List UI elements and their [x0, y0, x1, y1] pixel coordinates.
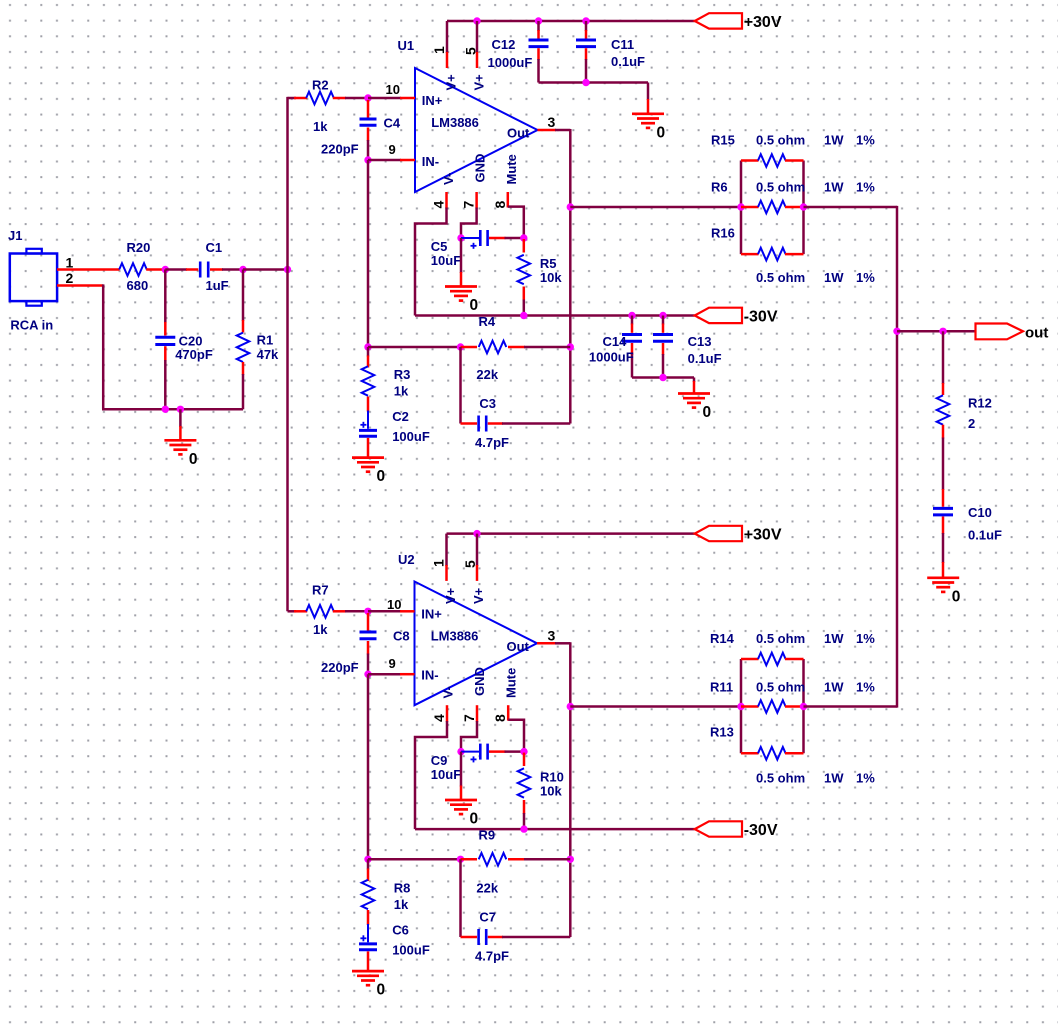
svg-text:C13: C13: [688, 334, 712, 349]
svg-text:10: 10: [386, 82, 400, 97]
svg-text:1k: 1k: [394, 384, 409, 399]
svg-text:Mute: Mute: [504, 668, 519, 698]
svg-text:Out: Out: [507, 126, 530, 141]
svg-text:7: 7: [460, 201, 476, 209]
wire to ground (C12/C11): [647, 83, 650, 101]
svg-text:5: 5: [463, 47, 479, 55]
resistor R6 0.5 ohm: [741, 206, 759, 209]
svg-text:3: 3: [548, 628, 556, 644]
svg-text:0: 0: [952, 588, 961, 605]
capacitor C6 100uF: [367, 924, 369, 942]
svg-text:LM3886: LM3886: [431, 629, 479, 644]
svg-text:47k: 47k: [257, 347, 279, 362]
junction R10/-30V rail: [520, 825, 527, 832]
op-amp U1 LM3886 triangle: [415, 68, 538, 192]
svg-text:4.7pF: 4.7pF: [475, 949, 509, 964]
svg-text:1W: 1W: [824, 180, 844, 195]
svg-text:22k: 22k: [476, 367, 498, 382]
svg-text:1W: 1W: [824, 680, 844, 695]
svg-text:GND: GND: [472, 667, 487, 696]
svg-text:R12: R12: [968, 396, 992, 411]
capacitor C3 4.7pF: [461, 422, 478, 425]
wire R bank left bracket (U1): [740, 161, 743, 255]
svg-text:out: out: [1025, 325, 1048, 342]
U1 pin 5 (V+) wire: [476, 21, 479, 53]
node +30V rail (U1): [447, 20, 695, 23]
svg-text:1: 1: [431, 46, 447, 54]
U2 pin 10 IN+ wire: [368, 610, 401, 613]
svg-text:R8: R8: [394, 881, 411, 896]
junction R6 right: [800, 203, 807, 210]
svg-text:IN-: IN-: [422, 154, 439, 169]
svg-text:9: 9: [389, 656, 396, 671]
capacitor C12 top lead: [535, 17, 542, 24]
U2 pin 8 (Mute) wire: [507, 705, 510, 720]
junction R11 right: [800, 703, 807, 710]
junction U1 pin5/rail: [473, 17, 480, 24]
ground (C12/C11): [632, 112, 664, 115]
svg-text:V+: V+: [471, 587, 486, 604]
svg-text:-30V: -30V: [744, 822, 778, 839]
wire to ground (C14/C13): [693, 378, 696, 383]
junction C1/R1: [239, 266, 246, 273]
svg-text:V-: V-: [441, 173, 456, 185]
svg-text:7: 7: [461, 714, 477, 722]
U1 output pin 3 wire: [538, 129, 557, 132]
svg-text:R15: R15: [711, 133, 735, 148]
svg-text:C14: C14: [603, 334, 628, 349]
svg-text:100uF: 100uF: [392, 429, 430, 444]
svg-text:R9: R9: [479, 828, 496, 843]
svg-text:1%: 1%: [856, 133, 875, 148]
resistor R9 22k: [461, 858, 478, 861]
svg-text:+30V: +30V: [744, 526, 782, 543]
svg-text:10k: 10k: [540, 270, 562, 285]
node -30V rail (U1): [415, 314, 695, 317]
svg-text:4.7pF: 4.7pF: [475, 435, 509, 450]
U1 pin 9 IN- wire: [368, 159, 401, 162]
junction C14 top: [628, 312, 635, 319]
svg-text:100uF: 100uF: [392, 943, 430, 958]
U2 output pin 3 wire: [537, 642, 556, 645]
junction R5/-30V rail: [520, 312, 527, 319]
wire IN- node vertical: [367, 160, 370, 347]
capacitor C4 220pF: [367, 100, 370, 118]
capacitor C20 470pF: [164, 270, 167, 324]
svg-text:1W: 1W: [824, 631, 844, 646]
svg-text:9: 9: [389, 142, 396, 157]
svg-text:8: 8: [492, 201, 508, 209]
resistor R16 0.5 ohm: [741, 253, 759, 256]
svg-text:1: 1: [431, 559, 447, 567]
svg-text:0.5 ohm: 0.5 ohm: [756, 133, 805, 148]
wire -30V decoupling ground rail: [632, 376, 694, 379]
svg-text:R13: R13: [710, 725, 734, 740]
junction feedback node R9: [364, 856, 371, 863]
junction U2 pin5/rail: [473, 530, 480, 537]
ground (input): [164, 439, 196, 442]
J1 pin 2 wire: [57, 284, 103, 287]
svg-text:1%: 1%: [856, 631, 875, 646]
U1 pin 10 IN+ wire: [368, 97, 401, 100]
svg-text:5: 5: [462, 560, 478, 568]
resistor R1 47k: [242, 270, 245, 322]
wire out node to R12: [942, 331, 945, 384]
wire bank to main bus (U2): [804, 705, 898, 708]
svg-text:R14: R14: [710, 631, 735, 646]
capacitor C11 bottom lead: [585, 48, 588, 60]
capacitor C14 1000uF: [631, 316, 634, 325]
svg-text:1uF: 1uF: [206, 278, 229, 293]
junction bus/out tap: [893, 328, 900, 335]
junction R11 left: [737, 703, 744, 710]
svg-text:0.5 ohm: 0.5 ohm: [756, 680, 805, 695]
svg-text:R16: R16: [711, 226, 735, 241]
wire C3 branch left: [459, 347, 462, 424]
power connector -30V (U2): [695, 821, 742, 836]
svg-text:2: 2: [66, 270, 74, 286]
connector out: [976, 324, 1024, 340]
junction C20/ground rail: [162, 406, 169, 413]
junction C9/R10/pin8: [520, 748, 527, 755]
svg-text:R2: R2: [312, 78, 329, 93]
resistor R10 10k: [523, 753, 526, 766]
junction C5/R5/pin8: [520, 234, 527, 241]
svg-text:0.5 ohm: 0.5 ohm: [756, 631, 805, 646]
svg-text:C10: C10: [968, 505, 992, 520]
svg-text:R10: R10: [540, 770, 564, 785]
U2 pin 9 IN- wire: [368, 673, 401, 676]
svg-text:-30V: -30V: [744, 308, 778, 325]
U2 pin 5 (V+) wire: [476, 534, 479, 566]
capacitor C13 0.1uF: [662, 316, 665, 325]
svg-text:2: 2: [968, 416, 975, 431]
svg-text:C12: C12: [492, 37, 516, 52]
svg-text:4: 4: [431, 201, 447, 209]
resistor R7 1k: [306, 605, 334, 618]
svg-text:R3: R3: [394, 367, 411, 382]
junction output/row (U2): [567, 703, 574, 710]
svg-text:U2: U2: [398, 552, 415, 567]
svg-text:0: 0: [657, 124, 666, 141]
svg-text:Mute: Mute: [504, 154, 519, 184]
junction ground tap: [177, 406, 184, 413]
capacitor C2 100uF: [367, 411, 369, 429]
svg-text:680: 680: [127, 278, 149, 293]
power connector +30V (U2): [695, 526, 742, 541]
ground (C10): [927, 576, 959, 579]
wire main output bus vertical: [896, 206, 899, 708]
svg-text:C2: C2: [392, 409, 409, 424]
svg-text:C1: C1: [206, 240, 223, 255]
junction C5 left: [457, 234, 464, 241]
svg-text:1%: 1%: [856, 180, 875, 195]
junction C13 top: [659, 312, 666, 319]
junction input node/vertical: [284, 266, 291, 273]
svg-text:1: 1: [66, 255, 74, 271]
ground (mute C9): [445, 799, 477, 802]
svg-text:0: 0: [189, 451, 198, 468]
wire R bank right bracket (U2): [802, 659, 805, 753]
connector J1 RCA: [10, 254, 57, 302]
node -30V rail (U2): [415, 828, 695, 831]
junction R9/C7 left: [457, 856, 464, 863]
wire to mute ground (U2): [460, 752, 463, 787]
wire to input ground: [179, 409, 182, 427]
junction output/row: [567, 203, 574, 210]
svg-text:R7: R7: [312, 583, 329, 598]
svg-text:0: 0: [470, 811, 479, 828]
svg-text:0.1uF: 0.1uF: [611, 54, 645, 69]
wire to mute ground: [460, 238, 463, 273]
capacitor C10 0.1uF: [942, 489, 945, 507]
svg-text:0: 0: [470, 297, 479, 314]
svg-text:1k: 1k: [313, 622, 328, 637]
svg-text:R6: R6: [711, 180, 728, 195]
svg-text:1W: 1W: [824, 771, 844, 786]
junction C8/pin9: [364, 671, 371, 678]
power connector -30V (U1): [695, 308, 742, 323]
capacitor C8 220pF: [367, 613, 370, 631]
junction C11/ground rail: [582, 79, 589, 86]
svg-text:+30V: +30V: [744, 14, 782, 31]
U1 pin 7 (GND) wire: [475, 192, 478, 209]
svg-text:C3: C3: [479, 396, 496, 411]
svg-text:0: 0: [703, 404, 712, 421]
wire R bank right bracket (U1): [802, 161, 805, 255]
svg-text:0.5 ohm: 0.5 ohm: [756, 270, 805, 285]
svg-text:U1: U1: [398, 38, 415, 53]
resistor R8 1k: [367, 859, 370, 869]
wire output row to R bank: [570, 206, 741, 209]
svg-text:1000uF: 1000uF: [488, 55, 533, 70]
resistor R3 1k: [367, 347, 370, 357]
svg-text:R4: R4: [479, 314, 496, 329]
resistor R20 680: [119, 263, 147, 276]
svg-text:C8: C8: [393, 629, 410, 644]
wire bank to main bus (U1): [804, 206, 898, 209]
svg-text:R11: R11: [710, 680, 733, 695]
capacitor C12 bottom lead: [537, 48, 540, 60]
svg-text:C11: C11: [611, 37, 634, 52]
svg-text:GND: GND: [473, 154, 488, 183]
resistor R5 10k: [523, 239, 526, 253]
op-amp U2 LM3886 triangle: [415, 582, 538, 706]
U2 pin 4 (V-) wire: [446, 705, 449, 722]
junction R12 top: [939, 328, 946, 335]
ground (C6): [352, 970, 384, 973]
svg-text:C4: C4: [384, 116, 401, 131]
junction C9 left: [457, 748, 464, 755]
capacitor C11 top lead: [582, 17, 589, 24]
wire output row to R bank (U2): [570, 705, 741, 708]
svg-text:1%: 1%: [856, 771, 875, 786]
wire R2 to junction: [333, 97, 346, 100]
wire feedback row: [368, 346, 461, 349]
svg-text:0.1uF: 0.1uF: [688, 351, 722, 366]
svg-text:1000uF: 1000uF: [589, 350, 634, 365]
capacitor C9 10uF: [461, 751, 479, 753]
svg-text:C5: C5: [431, 239, 448, 254]
junction R20/C1/C20: [162, 266, 169, 273]
svg-text:V-: V-: [441, 686, 456, 698]
svg-text:4: 4: [431, 714, 447, 722]
node +30V rail (U2): [447, 532, 695, 535]
wire decoupling ground rail (U1): [539, 81, 649, 84]
U2 pin 1 (V+) wire: [445, 534, 448, 566]
U1 pin 1 (V+) wire: [446, 21, 449, 53]
svg-text:0.5 ohm: 0.5 ohm: [756, 771, 805, 786]
svg-text:1k: 1k: [394, 897, 409, 912]
wire J1 pin2 down to ground rail: [102, 284, 105, 409]
U1 pin 4 (V-) wire: [445, 192, 448, 209]
svg-text:IN+: IN+: [422, 93, 443, 108]
svg-text:R20: R20: [127, 240, 151, 255]
svg-text:LM3886: LM3886: [431, 115, 479, 130]
ground (C14/C13): [678, 392, 710, 395]
junction R6 left: [737, 203, 744, 210]
svg-text:R1: R1: [257, 333, 274, 348]
capacitor C5 10uF: [461, 237, 479, 239]
svg-text:C7: C7: [479, 910, 496, 925]
svg-text:3: 3: [548, 114, 556, 130]
svg-text:V+: V+: [472, 74, 487, 91]
svg-text:220pF: 220pF: [321, 142, 359, 157]
wire splitter vertical (R2 to R7): [286, 97, 289, 611]
junction R7/C8/pin10: [364, 608, 371, 615]
wire input node to splitter: [243, 268, 288, 271]
resistor R12 2: [937, 395, 950, 424]
svg-text:1W: 1W: [824, 270, 844, 285]
resistor R11 0.5 ohm: [741, 705, 759, 708]
svg-text:22k: 22k: [476, 881, 498, 896]
U1 pin 8 (Mute) wire: [507, 192, 510, 208]
resistor R13 0.5 ohm: [741, 752, 759, 755]
junction C4/pin9: [364, 156, 371, 163]
wire R7 to junction: [333, 610, 346, 613]
svg-text:IN+: IN+: [421, 607, 442, 622]
svg-text:0: 0: [377, 982, 386, 999]
svg-text:1%: 1%: [856, 680, 875, 695]
wire R20 to C1: [146, 268, 165, 271]
wire C7 branch left: [459, 859, 462, 937]
power connector +30V (top): [695, 13, 742, 28]
capacitor C1 1uF: [199, 262, 202, 278]
junction R2/C4/pin10: [364, 94, 371, 101]
svg-text:220pF: 220pF: [321, 660, 359, 675]
svg-text:V+: V+: [443, 587, 458, 604]
resistor R2 1k: [306, 92, 334, 105]
J1 pin 1 wire: [57, 268, 120, 271]
svg-text:0.5 ohm: 0.5 ohm: [756, 180, 805, 195]
svg-text:8: 8: [492, 714, 508, 722]
svg-text:10k: 10k: [540, 784, 562, 799]
U2 pin 7 (GND) wire: [476, 705, 479, 722]
wire R bank left bracket (U2): [740, 659, 743, 753]
wire U2 output vertical: [569, 642, 572, 937]
resistor R4 22k: [461, 346, 478, 349]
svg-text:IN-: IN-: [421, 668, 438, 683]
svg-text:0: 0: [377, 468, 386, 485]
svg-text:R5: R5: [540, 256, 557, 271]
svg-text:V+: V+: [444, 74, 459, 91]
wire IN- node vertical (U2): [367, 674, 370, 859]
ground (mute C5): [445, 285, 477, 288]
capacitor C11 0.1uF: [576, 39, 596, 42]
wire R7 input row: [288, 610, 297, 613]
junction output/feedback: [567, 343, 574, 350]
capacitor C7 4.7pF: [461, 936, 478, 939]
wire U1 output vertical: [569, 129, 572, 424]
junction output/feedback (U2): [567, 856, 574, 863]
svg-text:1k: 1k: [313, 119, 328, 134]
wire R2 input row: [288, 97, 297, 100]
svg-text:10uF: 10uF: [431, 767, 461, 782]
resistor R15 0.5 ohm: [741, 159, 759, 162]
svg-text:1%: 1%: [856, 270, 875, 285]
ground (C2): [352, 456, 384, 459]
wire feedback row (U2): [368, 858, 461, 861]
svg-text:J1: J1: [8, 228, 22, 243]
wire C1 to R1 node: [210, 268, 223, 271]
svg-text:Out: Out: [507, 639, 530, 654]
junction feedback node R4: [364, 343, 371, 350]
svg-text:0.1uF: 0.1uF: [968, 528, 1002, 543]
svg-text:C6: C6: [392, 923, 409, 938]
svg-text:10: 10: [387, 597, 401, 612]
svg-text:C9: C9: [431, 753, 448, 768]
junction R4/C3 left: [457, 343, 464, 350]
capacitor C12 1000uF: [529, 39, 549, 42]
svg-text:1W: 1W: [824, 133, 844, 148]
svg-text:470pF: 470pF: [175, 347, 213, 362]
wire to out connector: [897, 330, 975, 333]
svg-text:RCA in: RCA in: [10, 318, 53, 333]
resistor R14 0.5 ohm: [741, 658, 759, 661]
junction C13/ground rail: [659, 374, 666, 381]
svg-text:10uF: 10uF: [431, 253, 461, 268]
